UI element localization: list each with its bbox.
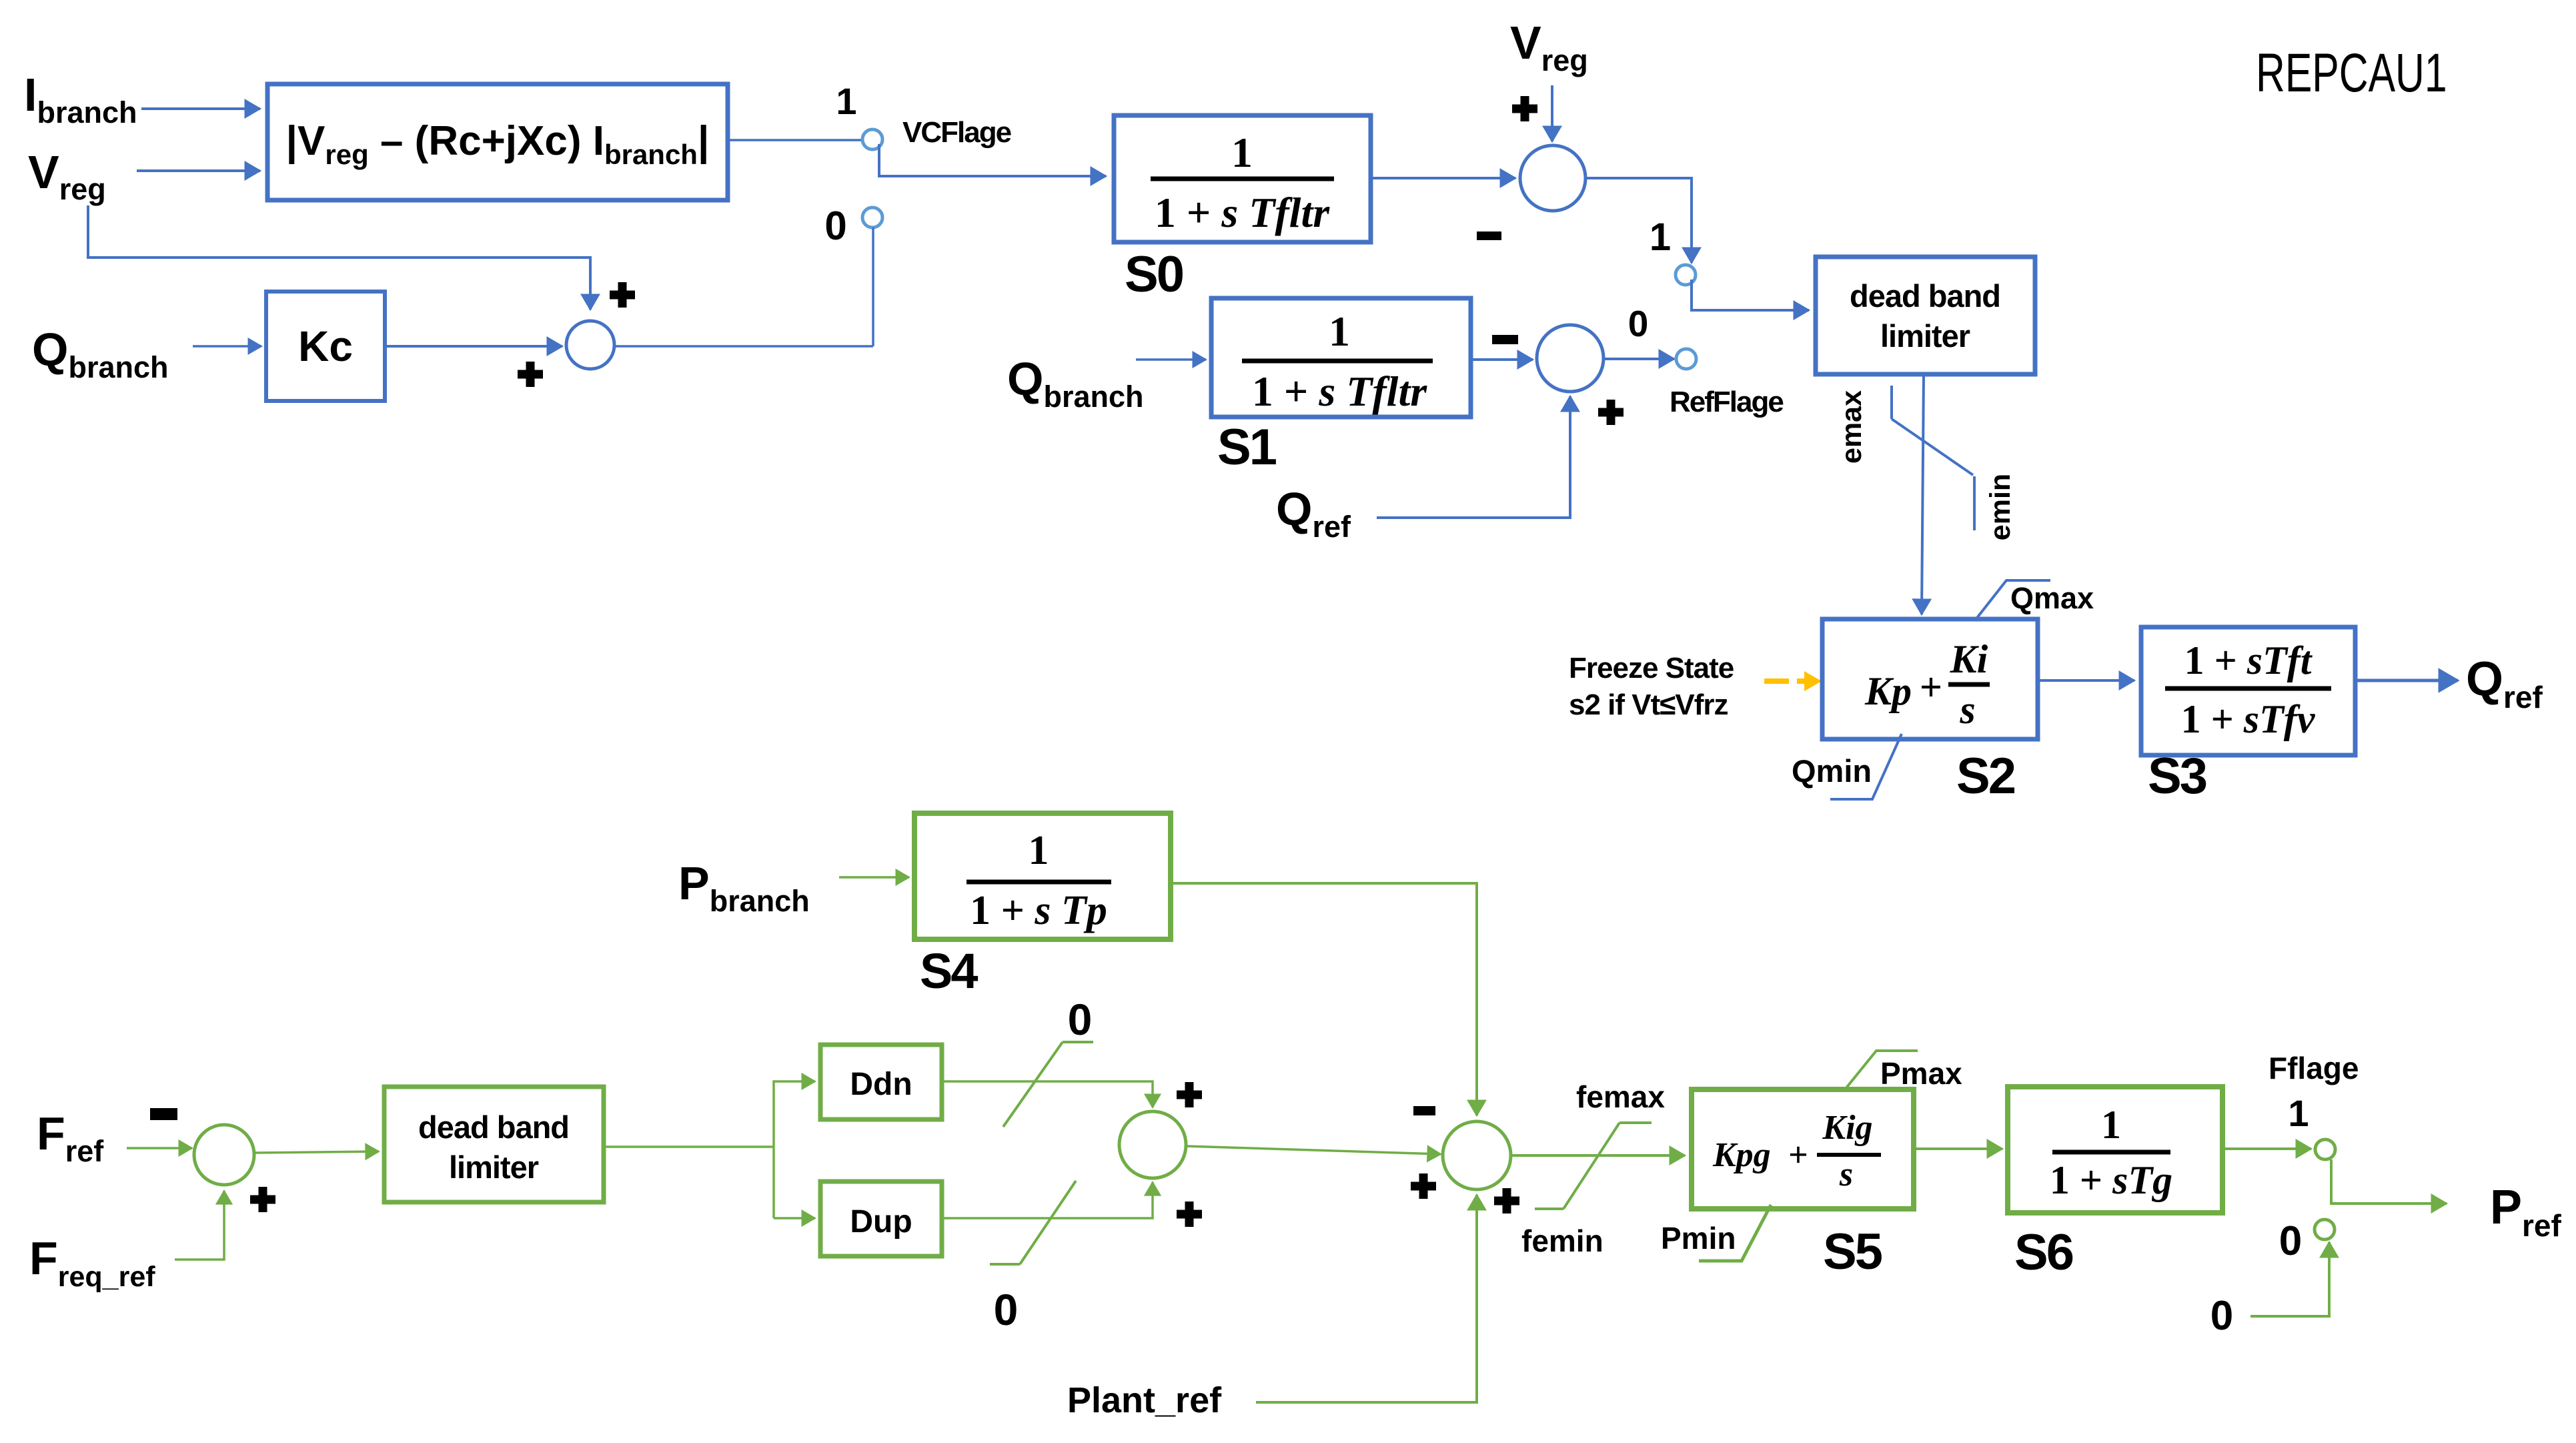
svg-text:1: 1 (1650, 215, 1671, 259)
svg-text:Qmin: Qmin (1792, 753, 1872, 789)
svg-text:Fflage: Fflage (2269, 1051, 2359, 1085)
svg-text:1 + sTft: 1 + sTft (2184, 638, 2313, 682)
orange dashed freeze arrow into S2 (1764, 678, 1789, 684)
svg-text:1 + s Tfltr: 1 + s Tfltr (1252, 368, 1427, 415)
wire S6 to switch Fflage terminal 1 (2222, 1147, 2311, 1150)
svg-text:1 + sTg: 1 + sTg (2050, 1158, 2172, 1202)
svg-text:limiter: limiter (1880, 318, 1970, 354)
wire terminal 0 down to Kc summing output (872, 227, 874, 346)
svg-text:Kp: Kp (1864, 669, 1912, 713)
summing junction F (1443, 1121, 1511, 1189)
wire S1 to summing junction C (1471, 358, 1533, 361)
label + (left into summing junction F) (1411, 1173, 1436, 1199)
svg-text:limiter: limiter (449, 1149, 539, 1185)
svg-text:s: s (1839, 1155, 1853, 1193)
wire V_reg into magnitude block (137, 169, 260, 172)
block dead band limiter (green) (384, 1087, 604, 1202)
label femax with slash (1535, 1079, 1665, 1209)
label + (Kc into summing junction A) (518, 362, 543, 387)
svg-text:VCFlage: VCFlage (902, 116, 1011, 149)
wire S4 to summing junction F (1171, 883, 1477, 1115)
wire Q_branch into S1 (1136, 358, 1206, 361)
label + (Freq_ref into summing junction D) (250, 1187, 275, 1212)
svg-text:emin: emin (1984, 474, 2016, 540)
svg-text:0: 0 (2279, 1218, 2302, 1264)
label + (Ddn into summing junction E) (1177, 1082, 1202, 1107)
svg-text:1: 1 (2101, 1103, 2121, 1147)
summing junction E (1119, 1111, 1186, 1178)
svg-text:RefFlage: RefFlage (1670, 386, 1783, 418)
switch Fflage terminal 1 (open circle) (2315, 1139, 2335, 1159)
wire magnitude block to switch terminal 1 (728, 139, 862, 141)
svg-text:+: + (1920, 665, 1942, 709)
svg-text:dead band: dead band (418, 1109, 569, 1145)
rate limit slash for Dup with label 0 (990, 1181, 1076, 1334)
svg-text:s2 if Vt≤Vfrz: s2 if Vt≤Vfrz (1569, 688, 1728, 721)
svg-text:1: 1 (1329, 308, 1350, 355)
block Dup (820, 1181, 942, 1256)
svg-text:Kig: Kig (1822, 1109, 1872, 1147)
wire S3 to Q_ref output (2355, 679, 2458, 682)
label Qmax with tick (1977, 580, 2094, 618)
svg-text:s: s (1959, 688, 1975, 732)
wire Q_ref into summing junction C (1377, 396, 1570, 518)
summing junction C (1537, 325, 1603, 392)
svg-text:Pmax: Pmax (1880, 1056, 1962, 1091)
block dead band limiter (blue) (1816, 257, 2035, 374)
svg-text:S3: S3 (2148, 748, 2206, 805)
wire V_reg down and into summing junction A (88, 205, 590, 310)
svg-text:REPCAU1: REPCAU1 (2256, 43, 2447, 103)
wire dead band limiter split to Ddn and Dup (604, 1145, 774, 1148)
svg-text:1 + s Tp: 1 + s Tp (970, 888, 1107, 933)
summing junction D (194, 1125, 254, 1185)
wire switch common to S0 (879, 144, 1106, 176)
svg-text:0: 0 (1628, 303, 1649, 344)
svg-text:Pmin: Pmin (1661, 1221, 1736, 1256)
switch VCFlage terminal 0 (open circle) (862, 207, 882, 227)
svg-text:Kc: Kc (298, 322, 353, 370)
svg-text:Ddn: Ddn (850, 1067, 912, 1102)
block S3 lead-lag (1+sTft)/(1+sTfv) (2141, 627, 2355, 755)
svg-text:femin: femin (1521, 1224, 1603, 1258)
svg-text:S0: S0 (1125, 246, 1183, 303)
block S6 transfer function 1/(1+sTg) (2008, 1087, 2222, 1213)
svg-text:+: + (1788, 1136, 1808, 1174)
label + (Vreg into summing junction B) (1512, 96, 1537, 121)
svg-text:Freeze State: Freeze State (1569, 652, 1734, 684)
svg-text:dead band: dead band (1850, 278, 2000, 314)
svg-text:1: 1 (1231, 129, 1253, 176)
svg-text:S2: S2 (1956, 748, 2015, 805)
wire dead band limiter down to S2 (1922, 374, 1924, 614)
label Pmax with tick (1845, 1051, 1962, 1091)
block S1 transfer function 1/(1+sTfltr) (1211, 298, 1471, 417)
label minus (S0 into summing junction B) (1477, 231, 1501, 240)
svg-text:1: 1 (836, 80, 856, 122)
svg-text:0: 0 (2210, 1293, 2233, 1339)
svg-text:S1: S1 (1217, 419, 1277, 476)
switch RefFlage terminal 0 (open circle) (1676, 349, 1696, 369)
wire S0 to summing junction B (1371, 177, 1515, 179)
wire F_ref into summing junction D (127, 1147, 192, 1149)
switch RefFlage terminal 1 (open circle) (1676, 265, 1696, 285)
svg-text:1 + s Tfltr: 1 + s Tfltr (1155, 189, 1330, 236)
block S2 PI controller Kp+Ki/s (1822, 619, 2038, 739)
label Qmin with tick (1792, 734, 1902, 799)
wire summing junction E to summing junction F (1186, 1146, 1441, 1154)
label + (Plant_ref into summing junction F) (1494, 1188, 1519, 1214)
svg-text:1: 1 (2288, 1092, 2309, 1134)
wire F_req_ref into summing junction D (175, 1191, 224, 1260)
block Kc (266, 292, 385, 401)
wire Fflage common to P_ref output (2331, 1159, 2447, 1204)
rate limit slash for Ddn with label 0 (1003, 995, 1093, 1127)
block |Vreg-(Rc+jXc)Ibranch| (267, 84, 728, 200)
svg-text:S5: S5 (1823, 1224, 1882, 1280)
wire S5 to S6 (1914, 1147, 2002, 1150)
svg-text:1 + sTfv: 1 + sTfv (2181, 697, 2316, 741)
label + (Dup into summing junction E) (1177, 1201, 1202, 1227)
svg-text:Plant_ref: Plant_ref (1067, 1380, 1222, 1420)
wire S2 to S3 (2038, 679, 2134, 682)
wire I_branch into magnitude block (141, 107, 260, 110)
block S0 transfer function 1/(1+sTfltr) (1114, 115, 1371, 242)
svg-text:1: 1 (1029, 828, 1049, 873)
svg-text:S6: S6 (2014, 1224, 2073, 1281)
svg-text:0: 0 (1068, 995, 1093, 1044)
wire RefFlage common to dead band limiter (1692, 280, 1809, 310)
label minus (Fref into summing junction D) (150, 1108, 177, 1120)
wire V_reg down into summing junction B (1551, 85, 1553, 141)
wire summing junction F to S5 (1511, 1154, 1685, 1157)
block S4 transfer function 1/(1+sTp) (914, 813, 1171, 939)
wire summing junction D to dead band limiter (254, 1151, 379, 1153)
switch VCFlage terminal 1 (open circle) (862, 129, 882, 149)
svg-text:S4: S4 (920, 943, 978, 999)
wire P_branch into S4 (839, 876, 909, 879)
label minus (S1 into summing junction C) (1492, 335, 1518, 344)
wire Ddn to summing junction E (942, 1081, 1153, 1107)
switch Fflage terminal 0 (open circle) (2315, 1220, 2335, 1240)
svg-text:0: 0 (824, 203, 846, 248)
label + (Qref into summing junction C) (1598, 400, 1624, 425)
wire Kc to summing junction A (385, 345, 562, 348)
svg-text:Ki: Ki (1950, 637, 1988, 681)
limiter annotation emax tick and diagonal and emin tick (1892, 386, 1974, 530)
wire 0 input up into Fflage terminal 0 (2250, 1242, 2329, 1316)
label + (Vreg into summing junction A) (610, 282, 635, 308)
summing junction A (566, 321, 614, 369)
svg-text:femax: femax (1576, 1079, 1665, 1114)
label minus (S4 into summing junction F) (1413, 1106, 1435, 1115)
block S5 PI controller Kpg+Kig/s (1692, 1089, 1914, 1209)
svg-text:Qmax: Qmax (2010, 581, 2094, 615)
wire Plant_ref into summing junction F (1256, 1195, 1477, 1402)
wire summing junction C to switch RefFlage terminal 0 (1603, 358, 1674, 360)
label Pmin with tick (1661, 1205, 1771, 1261)
wire summing junction A to switch terminal 0 (614, 345, 873, 348)
svg-text:0: 0 (994, 1285, 1019, 1334)
wire Dup to summing junction E (942, 1182, 1153, 1218)
svg-text:Dup: Dup (850, 1204, 912, 1240)
block Ddn (820, 1045, 942, 1119)
summing junction B (1520, 145, 1585, 211)
wire summing junction B to switch RefFlage terminal 1 (1585, 178, 1692, 263)
wire Q_branch into Kc (193, 345, 261, 348)
svg-text:Kpg: Kpg (1712, 1136, 1771, 1174)
svg-text:emax: emax (1836, 390, 1868, 464)
